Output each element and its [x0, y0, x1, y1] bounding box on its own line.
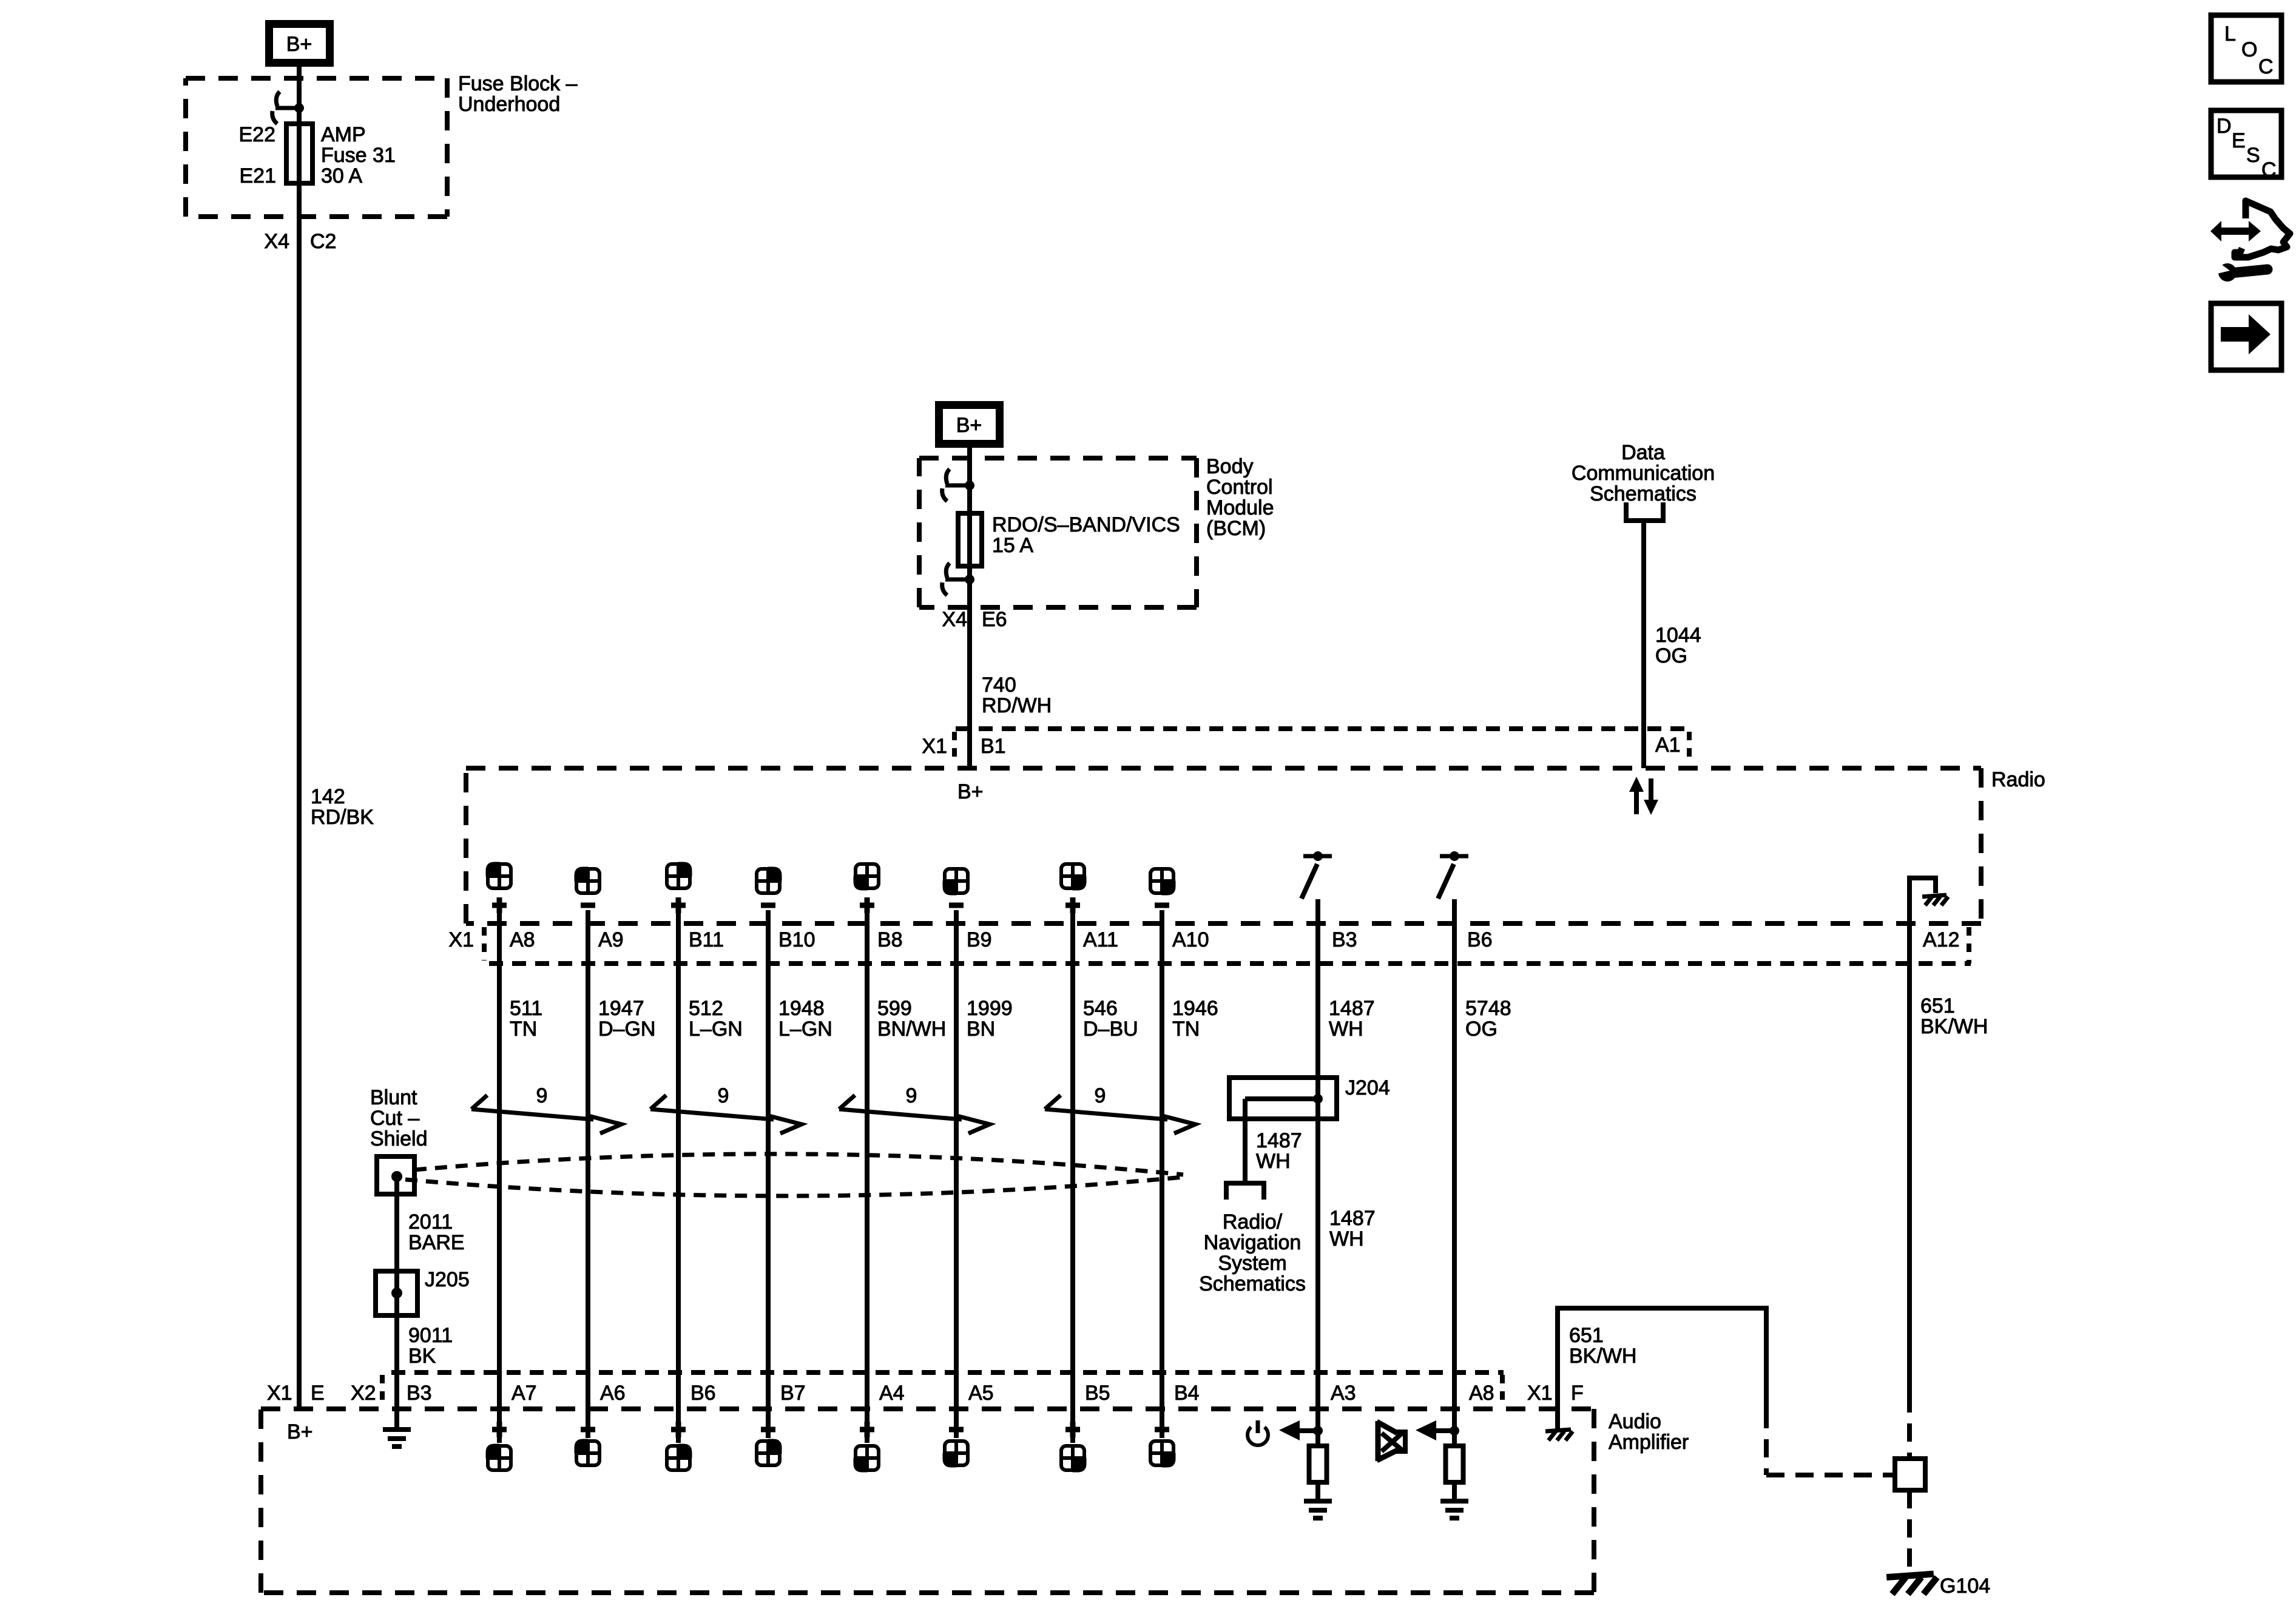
svg-text:9011: 9011 — [408, 1324, 453, 1347]
speaker mute symbol inside amplifier — [1377, 1421, 1405, 1461]
svg-text:651: 651 — [1920, 994, 1955, 1018]
radio internal ground hook at pin A12 — [1909, 878, 1948, 923]
legend icon forward arrow box — [2211, 303, 2281, 370]
svg-text:WH: WH — [1329, 1018, 1363, 1041]
svg-text:Fuse Block –: Fuse Block – — [458, 72, 578, 95]
svg-text:E: E — [311, 1382, 325, 1405]
svg-text:RDO/S–BAND/VICS: RDO/S–BAND/VICS — [992, 513, 1180, 536]
svg-text:C2: C2 — [310, 230, 336, 253]
legend icon DESC box — [2211, 110, 2281, 181]
svg-text:S: S — [2246, 144, 2260, 167]
body control module (BCM) dashed component box — [919, 458, 1197, 607]
svg-text:B+: B+ — [956, 414, 982, 437]
amplifier RF speaker - input speaker icon (pin B7) — [756, 1430, 782, 1466]
svg-text:1999: 1999 — [967, 997, 1013, 1020]
svg-text:651: 651 — [1569, 1324, 1604, 1347]
svg-text:E22: E22 — [239, 123, 276, 146]
svg-text:B4: B4 — [1174, 1382, 1200, 1405]
ground symbol below A8 resistor — [1440, 1501, 1468, 1518]
svg-text:Amplifier: Amplifier — [1609, 1431, 1689, 1454]
svg-text:B5: B5 — [1085, 1382, 1110, 1405]
svg-text:B7: B7 — [780, 1382, 806, 1405]
svg-text:Control: Control — [1206, 476, 1273, 499]
amplifier RR speaker - input speaker icon (pin B4) — [1150, 1430, 1175, 1467]
svg-text:E: E — [2232, 129, 2246, 152]
connector hook at BCM fuse bottom with junction — [942, 563, 974, 595]
svg-text:599: 599 — [877, 997, 912, 1020]
twisted pair symbol (9 twists) RR speaker pair — [1045, 1084, 1195, 1133]
dashed wire 651 to ground splice — [1766, 1410, 1893, 1475]
in-line ground connector box — [1895, 1459, 1925, 1490]
arrow from amplifier pin A8 to mute symbol with junction — [1416, 1420, 1459, 1440]
wire radio ground pin A12 circuit 651 BK/WH — [1907, 923, 1912, 1394]
svg-text:511: 511 — [510, 997, 542, 1020]
svg-text:1948: 1948 — [778, 997, 825, 1020]
radio mute control switch symbol at pin B6 — [1438, 851, 1468, 899]
svg-text:Cut –: Cut – — [370, 1107, 419, 1130]
svg-text:E21: E21 — [240, 164, 277, 187]
svg-text:X4: X4 — [264, 230, 289, 253]
svg-text:A8: A8 — [510, 928, 535, 951]
wire speaker circuit 1946 from radio A10 to amplifier — [1160, 910, 1164, 1438]
svg-text:1487: 1487 — [1329, 1207, 1376, 1230]
blunt cut shield termination box with junction — [377, 1156, 414, 1194]
radio RR speaker + output speaker icon (pin A11) — [1061, 863, 1086, 913]
svg-text:D–BU: D–BU — [1083, 1018, 1138, 1041]
svg-text:B+: B+ — [286, 33, 312, 56]
radio RF speaker + output speaker icon (pin B11) — [666, 862, 692, 913]
svg-text:X1: X1 — [448, 928, 474, 951]
svg-text:C: C — [2261, 158, 2277, 181]
radio LR speaker + output speaker icon (pin B8) — [854, 863, 879, 913]
wire speaker circuit 1999 from radio B9 to amplifier — [954, 910, 959, 1438]
wire speaker circuit 511 from radio A8 to amplifier — [497, 910, 502, 1443]
svg-text:Underhood: Underhood — [458, 93, 560, 116]
svg-text:BN/WH: BN/WH — [877, 1018, 946, 1041]
svg-text:F: F — [1571, 1382, 1584, 1405]
svg-text:B1: B1 — [981, 735, 1006, 758]
chassis ground inside amplifier at pin F — [1545, 1409, 1573, 1440]
wire speaker circuit 512 from radio B11 to amplifier — [676, 910, 681, 1443]
svg-text:L–GN: L–GN — [778, 1018, 832, 1041]
svg-text:OG: OG — [1465, 1018, 1497, 1041]
wire shield drain 2011 BARE / ground 9011 BK through J205 to amplifier pin B3 — [394, 1176, 399, 1428]
radio LF speaker + output speaker icon (pin A8) — [486, 862, 512, 913]
svg-text:Radio/: Radio/ — [1223, 1210, 1283, 1234]
svg-text:30 A: 30 A — [321, 164, 362, 187]
amplifier LF speaker + input speaker icon (pin A7) — [486, 1422, 512, 1471]
radio on/off control switch symbol at pin B3 — [1302, 851, 1332, 899]
svg-text:Radio: Radio — [1991, 768, 2045, 791]
svg-text:A4: A4 — [879, 1382, 905, 1405]
svg-text:Blunt: Blunt — [370, 1086, 417, 1109]
radio LF speaker - output speaker icon (pin A9) — [575, 867, 600, 905]
svg-text:Body: Body — [1206, 455, 1254, 478]
svg-text:A8: A8 — [1469, 1382, 1494, 1405]
bidirectional serial data arrows at radio pin A1 — [1629, 777, 1658, 815]
arrow from amplifier pin A3 to power symbol with junction — [1279, 1420, 1323, 1440]
amplifier RR speaker + input speaker icon (pin B5) — [1061, 1422, 1086, 1472]
radio RR speaker - output speaker icon (pin A10) — [1150, 868, 1175, 905]
svg-text:C: C — [2258, 55, 2274, 78]
svg-text:J204: J204 — [1345, 1076, 1390, 1099]
amplifier LR speaker - input speaker icon (pin A5) — [943, 1430, 968, 1467]
svg-text:1487: 1487 — [1256, 1129, 1302, 1152]
ground G104 chassis symbol — [1886, 1574, 1937, 1594]
ground symbol inside amplifier at pin B3 — [383, 1430, 411, 1447]
svg-text:RD/BK: RD/BK — [311, 806, 374, 829]
svg-text:1947: 1947 — [598, 997, 644, 1020]
shield drain dashed oval around speaker pairs — [405, 1154, 1183, 1196]
svg-text:Module: Module — [1206, 496, 1274, 519]
svg-text:X1: X1 — [267, 1382, 292, 1405]
svg-text:B+: B+ — [287, 1420, 313, 1443]
svg-text:A3: A3 — [1331, 1382, 1356, 1405]
svg-text:BARE: BARE — [408, 1231, 465, 1254]
svg-text:Communication: Communication — [1572, 462, 1715, 485]
svg-text:546: 546 — [1083, 997, 1118, 1020]
connector hook at BCM fuse top with junction — [942, 469, 974, 501]
wire GMLAN serial data to Radio pin A1 (circuit 1044) — [1641, 522, 1646, 768]
svg-text:5748: 5748 — [1465, 997, 1511, 1020]
svg-text:System: System — [1218, 1252, 1286, 1275]
svg-text:Fuse 31: Fuse 31 — [321, 144, 396, 167]
legend icon LOC box — [2211, 15, 2281, 82]
svg-text:BK: BK — [408, 1345, 436, 1368]
svg-text:TN: TN — [510, 1018, 537, 1041]
pull-down resistor at amplifier pin A3 — [1309, 1446, 1327, 1482]
svg-text:B10: B10 — [778, 928, 815, 951]
twisted pair symbol (9 twists) LR speaker pair — [839, 1084, 990, 1133]
svg-text:TN: TN — [1172, 1018, 1200, 1041]
svg-text:L–GN: L–GN — [689, 1018, 743, 1041]
svg-text:RD/WH: RD/WH — [982, 694, 1052, 717]
splice J204 box on circuit 1487 — [1229, 1078, 1337, 1119]
svg-text:Shield: Shield — [370, 1127, 428, 1150]
wire speaker circuit 546 from radio A11 to amplifier — [1070, 910, 1075, 1443]
svg-text:X1: X1 — [922, 735, 947, 758]
fuse block - underhood dashed component box — [186, 78, 447, 217]
radio RF speaker - output speaker icon (pin B10) — [756, 867, 782, 905]
svg-text:B3: B3 — [1332, 928, 1357, 951]
svg-text:A1: A1 — [1655, 734, 1681, 757]
dashed wire ground connector to G104 — [1907, 1490, 1912, 1571]
svg-text:A9: A9 — [598, 928, 624, 951]
svg-text:15 A: 15 A — [992, 534, 1033, 557]
svg-text:J205: J205 — [425, 1268, 470, 1291]
wire radio control circuit 1487 WH from radio B3 to amplifier A3 — [1315, 899, 1320, 1446]
wire speaker circuit 1948 from radio B10 to amplifier — [766, 910, 771, 1438]
wire B+ through RDO fuse to BCM pin E6 then Radio pin B1 (circuit 740) — [967, 447, 972, 768]
svg-text:A6: A6 — [600, 1382, 626, 1405]
svg-text:WH: WH — [1256, 1150, 1291, 1173]
svg-text:B11: B11 — [689, 928, 724, 951]
svg-text:D–GN: D–GN — [598, 1018, 655, 1041]
svg-text:X1: X1 — [1527, 1382, 1553, 1405]
connector hook at fuse terminal E22 with junction — [272, 92, 304, 124]
svg-text:B9: B9 — [967, 928, 992, 951]
svg-text:B3: B3 — [407, 1382, 432, 1405]
svg-text:9: 9 — [1095, 1084, 1106, 1107]
amplifier RF speaker + input speaker icon (pin B6) — [666, 1422, 692, 1471]
fuse RDO/S-BAND/VICS 15 A — [958, 513, 982, 566]
radio dashed component box — [466, 768, 1981, 923]
svg-text:1487: 1487 — [1329, 997, 1375, 1020]
off-page connector bracket for data link — [1626, 502, 1663, 521]
radio LR speaker - output speaker icon (pin B9) — [943, 868, 968, 905]
svg-text:A12: A12 — [1923, 928, 1960, 951]
svg-text:O: O — [2241, 38, 2257, 61]
svg-text:BK/WH: BK/WH — [1569, 1345, 1636, 1368]
svg-text:B+: B+ — [957, 780, 984, 803]
connector X1 dotted harness line below radio — [484, 927, 1971, 964]
svg-text:(BCM): (BCM) — [1206, 517, 1266, 540]
svg-text:X2: X2 — [351, 1382, 376, 1405]
svg-text:B6: B6 — [690, 1382, 716, 1405]
svg-text:1946: 1946 — [1172, 997, 1218, 1020]
svg-text:WH: WH — [1329, 1227, 1364, 1251]
off-page connector bracket to radio/navigation schematics — [1226, 1183, 1264, 1200]
svg-text:740: 740 — [982, 673, 1016, 697]
power on/off symbol inside amplifier — [1248, 1420, 1268, 1445]
wire resistor A8 to internal ground — [1452, 1482, 1457, 1500]
ground symbol below A3 resistor — [1304, 1501, 1332, 1518]
connector X2 dotted harness line above amplifier — [382, 1372, 1504, 1406]
splice J205 box with junction — [376, 1271, 417, 1315]
svg-text:Schematics: Schematics — [1199, 1272, 1306, 1295]
wire amplifier ground pin F circuit 651 BK/WH — [1558, 1308, 1766, 1410]
power node B+ (battery) feeding Body Control Module — [939, 405, 1000, 444]
svg-text:2011: 2011 — [408, 1210, 453, 1234]
wire 1487 WH branch to radio/navigation schematics — [1243, 1099, 1248, 1182]
svg-text:OG: OG — [1655, 644, 1687, 667]
svg-text:E6: E6 — [982, 608, 1007, 631]
svg-text:D: D — [2217, 115, 2232, 138]
svg-text:1044: 1044 — [1655, 624, 1701, 647]
svg-text:A10: A10 — [1172, 928, 1209, 951]
svg-text:A7: A7 — [512, 1382, 537, 1405]
svg-text:Data: Data — [1621, 441, 1665, 464]
connector X1 in-line dotted boundary at radio top — [954, 729, 1690, 763]
svg-text:Navigation: Navigation — [1204, 1231, 1302, 1254]
svg-text:B8: B8 — [877, 928, 903, 951]
fuse F31 AMP 30 A — [286, 124, 312, 183]
svg-text:G104: G104 — [1940, 1575, 1990, 1598]
wire speaker circuit 1947 from radio A9 to amplifier — [586, 910, 590, 1438]
legend icon harness routing with wrench — [2210, 201, 2290, 282]
amplifier LR speaker + input speaker icon (pin A4) — [854, 1422, 879, 1472]
svg-text:512: 512 — [689, 997, 723, 1020]
twisted pair symbol (9 twists) RF speaker pair — [650, 1084, 802, 1133]
power node B+ (battery) feeding Fuse Block - Underhood — [269, 24, 330, 63]
svg-text:AMP: AMP — [321, 123, 366, 146]
pull-down resistor at amplifier pin A8 — [1446, 1446, 1464, 1482]
dashed wire 651 into ground connector — [1907, 1394, 1912, 1457]
wire mute circuit 5748 OG from radio B6 to amplifier A8 — [1452, 899, 1457, 1446]
svg-text:Audio: Audio — [1609, 1410, 1661, 1433]
audio amplifier dashed component box — [261, 1409, 1594, 1593]
wire B+ to AMP fuse and down to Audio Amplifier pin E (circuit 142) — [297, 67, 302, 1409]
svg-text:X4: X4 — [942, 608, 967, 631]
twisted pair symbol (9 twists) LF speaker pair — [471, 1084, 621, 1133]
wire speaker circuit 599 from radio B8 to amplifier — [865, 910, 869, 1443]
svg-text:A11: A11 — [1083, 928, 1118, 951]
svg-text:9: 9 — [536, 1084, 548, 1107]
svg-text:BK/WH: BK/WH — [1920, 1015, 1988, 1038]
svg-text:A5: A5 — [968, 1382, 994, 1405]
svg-text:9: 9 — [906, 1084, 917, 1107]
svg-text:B6: B6 — [1467, 928, 1493, 951]
wire resistor A3 to internal ground — [1315, 1482, 1320, 1500]
svg-text:9: 9 — [718, 1084, 729, 1107]
amplifier LF speaker - input speaker icon (pin A6) — [575, 1430, 600, 1466]
svg-text:BN: BN — [967, 1018, 995, 1041]
svg-text:142: 142 — [311, 785, 345, 808]
svg-text:L: L — [2224, 22, 2236, 46]
svg-text:Schematics: Schematics — [1590, 482, 1697, 505]
